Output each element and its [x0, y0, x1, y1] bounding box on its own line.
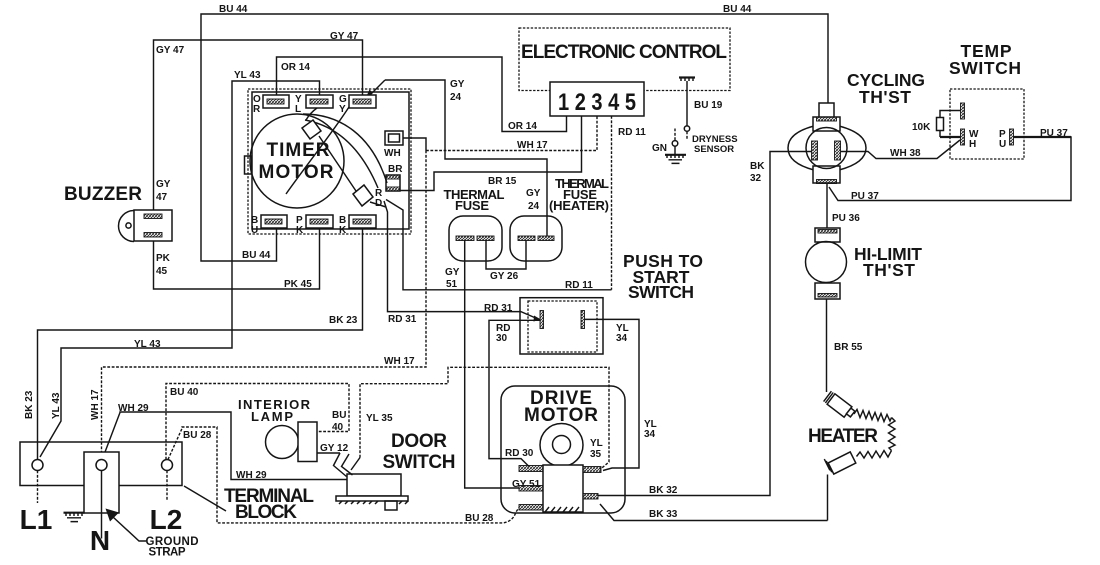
door switch body [347, 474, 401, 496]
svg-text:RD 31: RD 31 [484, 303, 513, 314]
svg-text:D: D [375, 198, 382, 209]
cycling thermostat top tab [819, 103, 834, 118]
svg-text:GY: GY [445, 267, 460, 278]
svg-text:(HEATER): (HEATER) [549, 198, 609, 213]
wire PU 36 : cycling bottom to hi-limit [826, 183, 828, 228]
svg-text:WH: WH [384, 148, 401, 159]
cycling thermostat circle [806, 128, 847, 169]
drive motor switch block [543, 465, 583, 512]
svg-text:DOOR: DOOR [391, 431, 447, 452]
svg-text:RD 31: RD 31 [388, 314, 417, 325]
timer cam leaf curves [303, 114, 387, 183]
svg-text:U: U [251, 225, 258, 236]
drive motor body [501, 386, 625, 513]
dryness sensor GN electrode and ground [674, 129, 676, 141]
svg-text:Y: Y [339, 104, 346, 115]
svg-text:HEATER: HEATER [808, 426, 878, 447]
thermal fuse (heater) body [510, 216, 562, 261]
wire heater to BK33 [827, 475, 829, 521]
temp switch WH terminal [940, 136, 961, 138]
svg-text:24: 24 [528, 201, 540, 212]
svg-text:GN: GN [652, 143, 667, 154]
ground symbol at N strap [64, 512, 85, 514]
svg-text:24: 24 [450, 92, 462, 103]
arrow GY24 into GY slot [369, 80, 385, 96]
svg-text:U: U [999, 139, 1006, 150]
svg-text:BK 23: BK 23 [329, 315, 358, 326]
timer terminal PK [306, 215, 333, 228]
svg-text:SWITCH: SWITCH [383, 452, 456, 473]
svg-text:GY 26: GY 26 [490, 271, 519, 282]
svg-text:YL 43: YL 43 [51, 392, 62, 419]
svg-text:L: L [295, 104, 301, 115]
svg-text:GY 47: GY 47 [156, 45, 185, 56]
door switch base plate hatching [339, 501, 408, 504]
svg-text:SENSOR: SENSOR [694, 144, 734, 155]
timer terminal YL [306, 95, 333, 108]
timer motor circle [250, 114, 344, 208]
temp switch box [950, 89, 1024, 159]
wire BU 44 : timer BU terminal to cycling thermostat via top bus [201, 14, 828, 261]
svg-text:N: N [90, 525, 110, 556]
push-to-start switch outer box [520, 298, 603, 354]
wire BK 33 : heater to drive motor [600, 504, 828, 521]
drive motor pin YL [583, 467, 601, 473]
svg-text:34: 34 [644, 429, 656, 440]
cycling thermostat wings [788, 126, 814, 170]
heater element zigzag [854, 410, 892, 422]
wire WH 29 : terminal block N to door switch [102, 412, 347, 480]
drive motor pin GY51 [519, 486, 543, 492]
svg-text:YL 43: YL 43 [234, 70, 261, 81]
wire PU 37 : cycling bottom tab to temp switch PU [829, 137, 1071, 201]
timer terminal BK [349, 215, 376, 228]
timer BR box [386, 175, 400, 191]
svg-text:WH 17: WH 17 [384, 356, 415, 367]
svg-text:SWITCH: SWITCH [628, 282, 694, 302]
wire GY 51 : thermal fuse to drive motor [465, 241, 519, 489]
hi-limit thermostat [815, 228, 840, 242]
svg-text:10K: 10K [912, 122, 931, 133]
svg-text:BR 55: BR 55 [834, 342, 863, 353]
svg-text:35: 35 [590, 449, 602, 460]
svg-text:OR 14: OR 14 [281, 62, 310, 73]
terminal L1 circle [32, 460, 43, 471]
thermal fuse body [449, 216, 502, 261]
svg-text:MOTOR: MOTOR [259, 162, 334, 183]
svg-text:34: 34 [616, 333, 628, 344]
svg-text:GY 47: GY 47 [330, 31, 359, 42]
10K resistor [940, 111, 961, 138]
svg-text:BR 15: BR 15 [488, 176, 517, 187]
svg-text:BR: BR [388, 164, 403, 175]
wire BU 40 : terminal block L2 to interior lamp [166, 384, 349, 460]
svg-text:STRAP: STRAP [149, 547, 186, 559]
timer WH box [385, 131, 403, 145]
wire RD 30 : switch to drive motor [489, 320, 540, 466]
wire GY 47 : buzzer top to timer GY terminal [154, 40, 363, 214]
timer cam follower shaft [319, 136, 386, 207]
dryness sensor flag terminal BU19 [679, 76, 695, 78]
svg-text:PU 36: PU 36 [832, 213, 860, 224]
svg-text:40: 40 [332, 422, 344, 433]
temp switch PU terminal [1010, 129, 1014, 145]
terminal N circle [96, 460, 107, 471]
svg-text:BK 33: BK 33 [649, 509, 678, 520]
buzzer [118, 211, 134, 242]
svg-text:30: 30 [496, 333, 508, 344]
push-to-start left pin [540, 311, 544, 329]
terminal L2 circle [162, 460, 173, 471]
timer motor inner box [252, 92, 409, 229]
wire RD 11 : control pin 4 to timer RD terminal [611, 116, 613, 290]
svg-text:BU 44: BU 44 [242, 250, 271, 261]
wire BR 15 : timer BR box to electronic control pin 2 [400, 116, 582, 191]
svg-text:YL: YL [590, 438, 603, 449]
svg-text:YL 35: YL 35 [366, 413, 393, 424]
heater top cone terminal [827, 394, 852, 417]
drive motor pin BK32 [583, 494, 598, 500]
timer cam diamond 2 [353, 185, 373, 206]
door switch foot [385, 501, 397, 510]
svg-text:BU 28: BU 28 [183, 430, 212, 441]
ground strap arrow [106, 509, 120, 522]
timer motor assembly outer dashed box [248, 89, 411, 234]
svg-text:BU 44: BU 44 [219, 4, 248, 15]
push-to-start switch inner dashed box [528, 301, 597, 352]
svg-text:GY: GY [526, 188, 541, 199]
svg-text:BU 40: BU 40 [170, 387, 199, 398]
svg-text:BU 44: BU 44 [723, 4, 752, 15]
temp switch top terminal [961, 103, 965, 119]
svg-text:BK 32: BK 32 [649, 485, 678, 496]
push-to-start right pin [581, 311, 585, 329]
svg-text:WH 17: WH 17 [517, 140, 548, 151]
svg-text:TIMER: TIMER [267, 140, 330, 161]
terminal block body [20, 442, 182, 486]
wire BR 55 : hi-limit to heater [826, 299, 828, 392]
svg-text:RD 11: RD 11 [618, 127, 646, 138]
svg-text:SWITCH: SWITCH [949, 58, 1021, 78]
svg-text:45: 45 [156, 266, 168, 277]
svg-text:R: R [253, 104, 261, 115]
wire OR 14 : timer OR terminal to electronic control pin 1 [277, 57, 567, 132]
svg-text:BU 19: BU 19 [694, 100, 723, 111]
wire PK 45 : buzzer bottom to timer PK terminal [154, 228, 320, 289]
heater bottom cone terminal [828, 452, 856, 474]
svg-text:BK: BK [750, 161, 765, 172]
drive motor rotor circles [540, 424, 583, 467]
wire BU 28 : terminal block L2 to drive motor [168, 427, 519, 523]
wire YL 35 : door switch to drive motor [360, 367, 609, 469]
wire RD 31 : timer RD terminal to push-to-start switch [384, 201, 538, 319]
cycling thermostat contact bars [812, 141, 818, 160]
svg-text:K: K [296, 225, 304, 236]
drive motor pin RD30 [519, 466, 543, 472]
wire GY 12 : lamp to door switch lever [317, 452, 340, 454]
wire YL 43 : timer YL terminal to terminal block L1 [40, 81, 320, 457]
wire WH 17 : timer WH box / control pin 3 / terminal block N [403, 138, 426, 151]
svg-text:32: 32 [750, 173, 762, 184]
door switch lever arms [334, 453, 347, 477]
timer terminal OR [263, 95, 289, 108]
timer left side tab [245, 156, 252, 174]
svg-text:BK 23: BK 23 [24, 390, 35, 419]
svg-text:L2: L2 [150, 504, 183, 535]
wire YL 34 : switch to drive motor [585, 319, 640, 470]
svg-text:TH'ST: TH'ST [859, 87, 911, 107]
svg-text:LAMP: LAMP [251, 409, 293, 424]
svg-text:H: H [969, 139, 976, 150]
svg-text:WH 17: WH 17 [90, 389, 101, 420]
svg-text:RD 11: RD 11 [565, 280, 593, 291]
svg-text:OR 14: OR 14 [508, 121, 537, 132]
svg-text:51: 51 [446, 279, 458, 290]
interior lamp bulb [266, 426, 299, 459]
svg-text:YL 43: YL 43 [134, 339, 161, 350]
wire GY 24 : timer GY terminal to thermal fuse heater right pin [385, 80, 547, 236]
door switch base plate [336, 496, 408, 501]
control connector 1 2 3 4 5 box [550, 82, 644, 116]
electronic control box [519, 28, 730, 91]
svg-text:WH 38: WH 38 [890, 148, 921, 159]
timer terminal BU [261, 215, 287, 228]
svg-text:L1: L1 [20, 504, 53, 535]
svg-text:GY 12: GY 12 [320, 443, 349, 454]
timer terminal GY [349, 95, 376, 108]
svg-text:BU: BU [332, 410, 346, 421]
svg-text:GY: GY [450, 79, 465, 90]
svg-text:47: 47 [156, 192, 168, 203]
drive motor pin BU28 [519, 505, 543, 511]
terminal leads below [37, 471, 39, 504]
cycling thermostat bottom tab [813, 166, 840, 183]
terminal block callout line [184, 486, 226, 511]
svg-text:ELECTRONIC CONTROL: ELECTRONIC CONTROL [521, 42, 727, 63]
terminal block N strap box [84, 452, 119, 513]
svg-text:FUSE: FUSE [455, 198, 489, 213]
wire BK 23 : timer BK terminal to terminal block L1 [38, 228, 363, 460]
svg-text:GY: GY [156, 179, 171, 190]
svg-text:1 2 3 4 5: 1 2 3 4 5 [558, 89, 636, 116]
timer cam diamond 1 [302, 120, 321, 139]
svg-text:WH 29: WH 29 [118, 403, 149, 414]
svg-text:BUZZER: BUZZER [64, 184, 142, 205]
interior lamp base [298, 422, 317, 462]
svg-text:WH 29: WH 29 [236, 470, 267, 481]
svg-text:RD 30: RD 30 [505, 448, 534, 459]
svg-text:TH'ST: TH'ST [863, 260, 915, 280]
wire BK 32 : cycling left tab to drive motor [598, 152, 812, 496]
wire WH 38 : cycling right tab to temp switch WH [841, 140, 961, 159]
svg-text:BU 28: BU 28 [465, 513, 494, 524]
svg-text:PU 37: PU 37 [851, 191, 879, 202]
svg-text:BLOCK: BLOCK [235, 502, 297, 523]
wire GY 26 : fuse to fuse [486, 241, 526, 270]
svg-text:PK 45: PK 45 [284, 279, 312, 290]
svg-text:K: K [339, 225, 347, 236]
svg-text:PK: PK [156, 253, 171, 264]
